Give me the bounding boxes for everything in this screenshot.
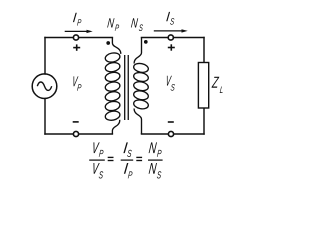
transformer T1 secondary winding NS	[133, 38, 149, 135]
equation numerator NP	[149, 142, 162, 157]
label VS	[166, 76, 175, 91]
polarity - secondary	[168, 121, 174, 123]
equation fraction bar NP/NS	[148, 159, 163, 161]
equation equals 1	[108, 157, 114, 160]
label NS	[131, 18, 143, 31]
wire left vertical lower	[44, 99, 46, 135]
label IS	[166, 12, 174, 25]
polarity dot primary	[106, 41, 110, 45]
node terminal bottom-left	[73, 131, 78, 136]
wire right vertical upper	[203, 38, 205, 63]
wire top-left (source to primary)	[45, 37, 112, 39]
polarity - primary	[73, 121, 79, 123]
wire top-right (secondary to load)	[142, 37, 205, 39]
node terminal top-left	[73, 35, 78, 40]
wire left vertical upper	[44, 38, 46, 75]
transformer T1 primary winding NP	[104, 38, 120, 135]
load ZL	[198, 63, 208, 109]
current arrow IS	[154, 29, 188, 32]
equation denominator IP	[124, 163, 133, 178]
equation equals 2	[136, 157, 142, 160]
AC source VP	[32, 74, 57, 99]
polarity + primary	[73, 44, 80, 50]
equation numerator VP	[92, 142, 103, 157]
transformer T1 core	[125, 55, 129, 120]
wire right vertical lower	[203, 108, 205, 134]
polarity dot secondary	[144, 40, 148, 44]
node terminal top-right	[168, 35, 173, 40]
equation denominator NS	[149, 163, 162, 179]
current arrow IP	[65, 30, 93, 33]
label IP	[73, 13, 82, 26]
equation denominator VS	[92, 163, 103, 179]
label NP	[107, 18, 119, 31]
polarity + secondary	[168, 44, 175, 50]
wire bottom-left (source to primary)	[45, 133, 112, 135]
equation fraction bar IS/IP	[121, 159, 134, 161]
equation fraction bar VP/VS	[89, 159, 105, 161]
node terminal bottom-right	[168, 131, 173, 136]
label ZL	[212, 77, 224, 93]
label VP	[72, 76, 81, 90]
wire bottom-right (secondary to load)	[142, 133, 205, 135]
equation numerator IS	[123, 142, 132, 157]
